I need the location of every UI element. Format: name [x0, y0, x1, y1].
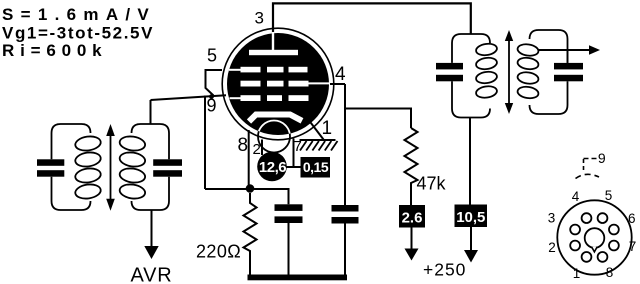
wire grid return to secondary top — [150, 100, 152, 125]
svg-text:1: 1 — [322, 118, 333, 139]
pin 7 lead — [293, 139, 295, 168]
pin 2 lead — [261, 140, 263, 156]
cathode junction dot — [246, 184, 255, 193]
svg-text:2: 2 — [253, 141, 261, 158]
resistor 47k — [405, 128, 418, 205]
svg-text:AVR: AVR — [130, 265, 172, 284]
svg-text:9: 9 — [207, 96, 217, 116]
svg-text:8: 8 — [606, 265, 614, 280]
socket center key — [585, 228, 605, 252]
svg-text:8: 8 — [238, 135, 249, 156]
svg-text:0,15: 0,15 — [303, 159, 329, 175]
heater voltage disc 12,6 — [257, 152, 287, 182]
capacitor C6 right tank — [554, 63, 583, 81]
capacitor C5 right tank — [436, 63, 463, 81]
svg-text:+250: +250 — [423, 260, 466, 280]
svg-text:1: 1 — [573, 266, 581, 281]
pin label 9 — [207, 96, 217, 116]
chassis ground pin1 — [300, 140, 338, 151]
svg-text:2.6: 2.6 — [402, 210, 423, 227]
value label Vg1 — [2, 24, 154, 43]
capacitor C3 cathode bypass — [275, 204, 303, 274]
svg-text:7: 7 — [629, 239, 637, 254]
pin 9 lead — [151, 95, 227, 100]
arrow below 10,5 — [464, 227, 478, 263]
junction pins 5-9 — [209, 94, 214, 99]
tube V1 envelope — [222, 28, 334, 140]
pin 1 lead — [306, 117, 324, 140]
output arrow — [538, 45, 601, 63]
svg-text:S=1.6mA/V: S=1.6mA/V — [2, 5, 156, 24]
label 220 ohm — [196, 242, 241, 262]
coupling arrow left transformer — [106, 124, 115, 211]
svg-text:5: 5 — [605, 188, 613, 203]
value label S — [2, 5, 156, 24]
label +250 — [423, 260, 466, 280]
grid g1 row (pin9) — [230, 95, 309, 101]
pin label 7 — [294, 138, 302, 155]
pin 8 lead — [248, 130, 250, 189]
capacitor C1 left tank — [37, 159, 64, 176]
wire anode pin3 to primary — [273, 3, 471, 34]
pin label 1 — [322, 118, 333, 139]
svg-text:2: 2 — [548, 240, 556, 255]
coupling arrow right transformer — [505, 30, 513, 114]
svg-text:Vg1=-3tot-52.5V: Vg1=-3tot-52.5V — [2, 24, 154, 43]
svg-text:3: 3 — [548, 211, 556, 226]
socket outline — [557, 200, 631, 274]
pin label 3 — [255, 9, 264, 28]
wire primary bottom to 10,5 — [469, 118, 471, 205]
grid g2 row (pin4) — [241, 81, 330, 87]
value label Ri — [2, 41, 107, 60]
value box 2.6 — [399, 205, 425, 228]
right secondary coil — [517, 43, 539, 100]
anode plate — [249, 50, 298, 55]
right IF transformer secondary box — [530, 30, 568, 114]
svg-text:Ri=600k: Ri=600k — [2, 41, 107, 60]
anode lead (white) — [272, 32, 274, 50]
capacitor C4 screen bypass — [332, 205, 359, 275]
svg-text:6: 6 — [628, 211, 636, 226]
ground bus — [248, 275, 348, 281]
wire pin4 screen branch — [344, 84, 346, 205]
arrow below 2.6 — [405, 228, 419, 261]
wire pin5 shield down to cathode rail — [204, 96, 206, 190]
svg-text:5: 5 — [207, 46, 217, 66]
AVR label — [130, 265, 172, 284]
left IF transformer secondary box — [132, 124, 170, 210]
svg-text:10,5: 10,5 — [456, 209, 485, 226]
svg-text:3: 3 — [255, 9, 264, 28]
svg-text:220Ω: 220Ω — [196, 242, 241, 262]
socket pin holes — [570, 213, 619, 262]
resistor 220 ohm — [244, 193, 257, 275]
pin label 2 — [253, 141, 261, 158]
tube V1 body disc — [227, 33, 329, 135]
capacitor C2 left tank — [153, 159, 182, 176]
svg-text:4: 4 — [572, 189, 580, 204]
cathode — [249, 115, 302, 122]
left IF transformer primary box — [52, 124, 91, 210]
left secondary coil — [119, 135, 146, 200]
AVR arrow — [144, 210, 158, 259]
wire cathode rail — [205, 189, 289, 204]
socket pin 9 callout — [576, 150, 606, 179]
value box 10,5 — [455, 205, 488, 228]
svg-text:47k: 47k — [417, 174, 447, 194]
svg-text:12,6: 12,6 — [259, 159, 286, 176]
socket pin numbers — [548, 188, 637, 281]
label 47k — [417, 174, 447, 194]
pin 4 lead — [330, 83, 345, 85]
svg-text:9: 9 — [598, 150, 606, 166]
svg-text:4: 4 — [335, 64, 346, 85]
pin label 8 — [238, 135, 249, 156]
pin 5 lead — [206, 70, 223, 96]
grid g3 row (pin5) — [229, 67, 308, 73]
pin label 5 — [207, 46, 217, 66]
pin label 4 — [335, 64, 346, 85]
wire to 47k — [345, 109, 411, 129]
wire heater to 0,15 — [287, 166, 301, 168]
right IF transformer primary box — [452, 34, 490, 118]
right primary coil — [475, 42, 497, 99]
heater circle — [258, 121, 290, 153]
value box 0,15 — [301, 157, 331, 178]
left primary coil — [74, 135, 101, 200]
